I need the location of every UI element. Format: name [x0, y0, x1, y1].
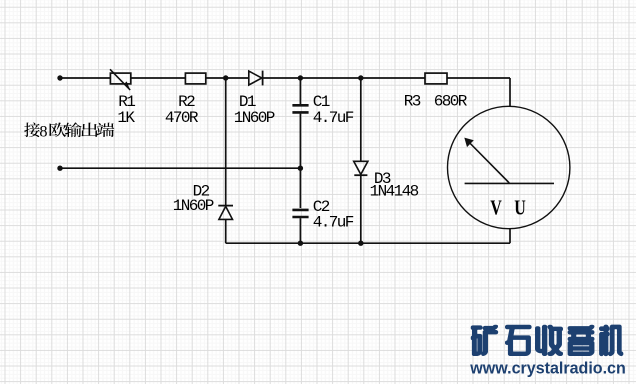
svg-text:1N60P: 1N60P: [173, 197, 214, 215]
svg-text:4.7uF: 4.7uF: [313, 213, 354, 231]
svg-text:1N4148: 1N4148: [370, 183, 419, 201]
svg-text:U: U: [514, 197, 526, 221]
svg-text:www.crystalradio.cn: www.crystalradio.cn: [469, 360, 625, 378]
svg-text:1K: 1K: [117, 109, 135, 127]
svg-text:8: 8: [39, 121, 47, 140]
svg-text:V: V: [490, 197, 502, 221]
svg-text:680R: 680R: [434, 93, 468, 111]
svg-text:4.7uF: 4.7uF: [313, 109, 354, 127]
svg-text:R3: R3: [404, 93, 421, 111]
svg-text:470R: 470R: [165, 109, 199, 127]
svg-text:1N60P: 1N60P: [234, 109, 275, 127]
